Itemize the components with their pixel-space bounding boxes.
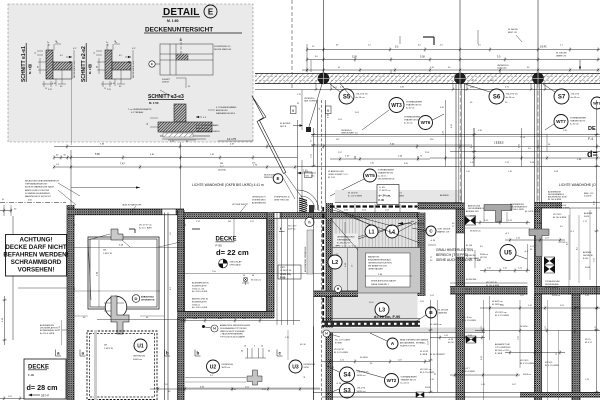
achtung warning box xyxy=(3,235,68,277)
svg-text:26: 26 xyxy=(114,41,116,43)
grid line through achtung box xyxy=(12,216,14,340)
svg-text:BL 4.17: BL 4.17 xyxy=(585,342,593,344)
svg-text:M. 15/2 W: M. 15/2 W xyxy=(348,193,358,195)
svg-text:b: b xyxy=(166,351,169,356)
svg-text:d= 24 cm,: d= 24 cm, xyxy=(379,194,392,198)
svg-text:DECKENGLEICH: DECKENGLEICH xyxy=(378,179,395,181)
lichte wandhoehe text left xyxy=(192,183,264,187)
t beam 2 right big xyxy=(529,229,549,257)
bowtie symbol 1 xyxy=(465,216,476,225)
svg-text:S7: S7 xyxy=(558,95,566,101)
svg-text:BL 4.5 & BWS: BL 4.5 & BWS xyxy=(462,371,475,373)
svg-text:30/20 cm: 30/20 cm xyxy=(523,374,532,376)
lower room dashed rectangle xyxy=(87,331,157,400)
d 20 label xyxy=(374,315,400,319)
label WT5 xyxy=(330,169,395,197)
label WT3 xyxy=(389,98,423,113)
svg-text:70/45 cm: 70/45 cm xyxy=(192,304,201,306)
lower room labels xyxy=(104,339,147,361)
label S5 xyxy=(330,84,368,104)
bottom dim row y389 xyxy=(150,387,320,392)
svg-text:40: 40 xyxy=(243,275,245,277)
svg-text:17b-17/2: 17b-17/2 xyxy=(357,388,366,390)
svg-text:DECKE 30: DECKE 30 xyxy=(583,255,594,257)
svg-text:4.17: 4.17 xyxy=(132,48,136,50)
leader line through panel xyxy=(71,70,73,145)
stair right wall band xyxy=(418,213,426,297)
svg-text:b= 24 cm: b= 24 cm xyxy=(378,176,387,178)
svg-text:UPRO-ALW: UPRO-ALW xyxy=(230,264,241,267)
svg-text:SIEHE PLAN-NR. J: SIEHE PLAN-NR. J xyxy=(371,283,389,286)
svg-text:BL 4.17 & BWS: BL 4.17 & BWS xyxy=(520,363,534,365)
svg-text:h: h xyxy=(308,220,310,224)
right wall band x460 xyxy=(456,84,465,400)
stair area extra marks xyxy=(336,204,485,340)
svg-text:VD 15/15 W: VD 15/15 W xyxy=(486,282,497,284)
hall vertical dim chain right xyxy=(471,128,521,167)
svg-text:M. 4/2 W: M. 4/2 W xyxy=(420,351,428,353)
svg-text:40. 30/20 cm: 40. 30/20 cm xyxy=(430,324,442,326)
stair gray strip top xyxy=(335,190,462,203)
svg-text:ANBAUTEILE: ANBAUTEILE xyxy=(141,296,155,299)
left stair band bottom continues xyxy=(313,327,315,400)
svg-text:M 30/2: M 30/2 xyxy=(470,216,477,218)
middle room bottom wall band xyxy=(178,312,275,319)
svg-text:1.05/1 W: 1.05/1 W xyxy=(104,348,114,350)
svg-text:30: 30 xyxy=(352,80,354,82)
extra scatter bottom mid 2 xyxy=(322,349,434,389)
svg-text:MIT ARBEITEN 10%: MIT ARBEITEN 10% xyxy=(368,265,387,268)
svg-text:b= 30 cm: b= 30 cm xyxy=(404,123,413,125)
svg-text:H: H xyxy=(268,350,270,353)
svg-text:BEREICH (TREPPE): BEREICH (TREPPE) xyxy=(436,253,468,257)
aussparung bodenplatte notes xyxy=(192,282,209,310)
bowtie symbol 3 xyxy=(466,336,476,343)
svg-text:B. 30FB: B. 30FB xyxy=(420,354,428,356)
unterfangung note xyxy=(334,234,358,246)
right wall band x538 xyxy=(535,84,542,400)
svg-text:B= 124 & UKFB: B= 124 & UKFB xyxy=(40,333,55,335)
left pier verticals xyxy=(298,100,330,400)
svg-text:LAIBUNG: LAIBUNG xyxy=(438,312,448,315)
svg-text:30/60 cm: 30/60 cm xyxy=(133,359,142,361)
svg-text:WT7: WT7 xyxy=(556,119,566,124)
det b note xyxy=(280,123,303,128)
svg-text:VD 4.1 ?: VD 4.1 ? xyxy=(462,368,471,370)
bowtie symbol 2 double xyxy=(544,257,555,273)
svg-text:F-4: F-4 xyxy=(588,137,593,141)
svg-text:M. 1:50: M. 1:50 xyxy=(149,101,159,105)
upper room leader lines xyxy=(88,234,180,247)
grid axis verticals xyxy=(292,0,538,90)
column S6 section xyxy=(454,73,465,84)
svg-text:WT2: WT2 xyxy=(387,378,397,383)
svg-text:BL 4.17 & BWS: BL 4.17 & BWS xyxy=(462,320,476,322)
svg-text:LICHTE WANDHÖHE (OKFB BIS: LICHTE WANDHÖHE (OKFB BIS UKRD) 4.41 m xyxy=(192,183,264,187)
svg-text:DET 4?: DET 4? xyxy=(41,395,50,398)
svg-text:SCHRAMMBORD: SCHRAMMBORD xyxy=(11,259,62,266)
svg-text:VD 15/15 cm: VD 15/15 cm xyxy=(495,312,507,314)
panel extra dim furniture xyxy=(35,41,237,115)
svg-text:19.43: 19.43 xyxy=(540,45,547,49)
svg-text:+ FACHUNTERNEHMEN: + FACHUNTERNEHMEN xyxy=(220,333,243,336)
svg-text:Bo. 224 U.GOFB: Bo. 224 U.GOFB xyxy=(192,291,208,293)
upper room inner rectangle xyxy=(88,237,159,309)
t beam mid bottom xyxy=(247,370,262,385)
svg-text:30/2 VQ: 30/2 VQ xyxy=(288,229,296,231)
svg-text:VD 15: VD 15 xyxy=(585,339,591,341)
circle C callout xyxy=(412,226,451,236)
svg-text:DECKE ÜBER UG: DECKE ÜBER UG xyxy=(214,48,232,51)
svg-text:AUSSPARUNG: AUSSPARUNG xyxy=(40,324,54,327)
dimension row 5.38 xyxy=(306,53,600,71)
svg-text:VD 15/15 cm: VD 15/15 cm xyxy=(420,369,432,371)
svg-text:VD 15/15: VD 15/15 xyxy=(553,214,562,216)
quadrant symbol xyxy=(219,259,243,268)
stl 17.30 box hall xyxy=(377,185,399,205)
svg-text:F-40: F-40 xyxy=(379,198,385,202)
svg-text:GRAU HINTERLEGTEN: GRAU HINTERLEGTEN xyxy=(436,248,473,252)
corner mark xyxy=(423,37,434,45)
detail panel background xyxy=(8,4,253,142)
svg-text:VD. 1.07 & BWS: VD. 1.07 & BWS xyxy=(335,340,350,342)
lichte wandhoehe text right xyxy=(559,183,596,187)
svg-text:40 OK: 40 OK xyxy=(448,342,454,344)
w decke ueber ug arrow xyxy=(398,222,425,225)
svg-text:70/45 cm, UK: 70/45 cm, UK xyxy=(192,288,205,290)
svg-text:+4.50: +4.50 xyxy=(336,383,342,385)
svg-text:2x: 2x xyxy=(47,42,49,44)
svg-text:VORHANDENER: VORHANDENER xyxy=(406,101,423,104)
svg-text:AUSSPARUNG: AUSSPARUNG xyxy=(252,202,266,205)
svg-text:UNTERZUG: UNTERZUG xyxy=(222,364,234,366)
svg-text:F-90: F-90 xyxy=(28,373,35,377)
svg-text:TIEFGARAGE: TIEFGARAGE xyxy=(337,239,351,242)
svg-text:17.30/17.30: 17.30/17.30 xyxy=(280,270,292,272)
svg-text:1 STL: 1 STL xyxy=(280,267,286,269)
outer wall top horizontal right part xyxy=(178,213,332,219)
svg-text:30: 30 xyxy=(472,80,474,82)
unterzug note above wall xyxy=(181,142,291,209)
stair labels L1 L4 L2 xyxy=(365,225,378,238)
svg-text:AUSSPARUNG TRENNFUGE: AUSSPARUNG TRENNFUGE xyxy=(304,246,307,272)
section markers a a b b c xyxy=(56,350,283,357)
hall horizontal lines xyxy=(297,135,600,167)
labels U2 U3 xyxy=(207,360,234,373)
svg-text:12.175: 12.175 xyxy=(227,137,237,141)
svg-text:B? BWt: B? BWt xyxy=(335,341,342,344)
label S7 xyxy=(543,84,580,104)
svg-text:17b-17/2 DC: 17b-17/2 DC xyxy=(506,94,519,96)
label WT7 xyxy=(545,115,587,131)
svg-text:E: E xyxy=(151,62,153,66)
svg-text:E: E xyxy=(208,8,214,17)
svg-text:BF 56/5 ux 5/17: BF 56/5 ux 5/17 xyxy=(495,350,510,352)
svg-text:BEFAHREN WERDEN!: BEFAHREN WERDEN! xyxy=(3,252,68,259)
aussparung note bottom left xyxy=(40,324,67,335)
svg-text:16: 16 xyxy=(244,346,246,348)
svg-text:GEH. SCHNITT: GEH. SCHNITT xyxy=(304,101,318,103)
svg-text:DECKENRAND B: DECKENRAND B xyxy=(468,207,485,210)
svg-text:M. 140: M. 140 xyxy=(466,245,473,247)
svg-text:M 15/15: M 15/15 xyxy=(545,362,553,364)
svg-text:+4.50: +4.50 xyxy=(448,339,454,341)
svg-text:ABSTELLUNG IN: ABSTELLUNG IN xyxy=(192,298,208,301)
svg-text:5.38: 5.38 xyxy=(352,56,357,59)
svg-text:DECKENUNTERSICHT: DECKENUNTERSICHT xyxy=(145,27,213,34)
svg-text:45: 45 xyxy=(188,86,190,88)
left dim row 2 xyxy=(53,163,297,172)
svg-text:TRÄGER IM OG: TRÄGER IM OG xyxy=(401,379,417,382)
deckenuntersicht mini plan xyxy=(149,44,232,75)
svg-text:VD 1.03?: VD 1.03? xyxy=(288,226,297,228)
svg-text:BL 4.17 & BWS: BL 4.17 & BWS xyxy=(420,372,434,374)
svg-text:VORHANDENER: VORHANDENER xyxy=(401,376,418,379)
svg-text:4.2 TIEFBAU: 4.2 TIEFBAU xyxy=(131,111,144,114)
svg-text:DECKENSPIEGEL: DECKENSPIEGEL xyxy=(74,60,76,78)
svg-text:DE: DE xyxy=(103,250,107,252)
label WT6 xyxy=(404,114,444,130)
svg-text:BL 4.17 & BWS: BL 4.17 & BWS xyxy=(545,365,559,367)
left dim row 1 xyxy=(53,153,297,160)
svg-text:ACHTUNG!: ACHTUNG! xyxy=(20,236,53,243)
upper room dims xyxy=(74,240,185,307)
svg-text:DE: DE xyxy=(588,126,596,132)
svg-text:5.86: 5.86 xyxy=(95,153,100,156)
svg-text:b: b xyxy=(197,351,200,356)
misc leader lines xyxy=(122,84,389,214)
svg-text:M. 1:60: M. 1:60 xyxy=(167,19,179,23)
circle H small xyxy=(323,330,350,344)
svg-text:U2: U2 xyxy=(210,364,217,370)
svg-text:ODER SCHNITT C-C,: ODER SCHNITT C-C, xyxy=(328,174,349,176)
boxed 9 markers xyxy=(291,106,332,114)
svg-text:TYP RL/30 RL/30 B LAMPE: TYP RL/30 RL/30 B LAMPE xyxy=(220,336,246,339)
svg-text:ÜBER SCHUTZ VORSEHE: ÜBER SCHUTZ VORSEHE xyxy=(220,330,245,333)
svg-text:7 cm VERBUNDSMATTE: 7 cm VERBUNDSMATTE xyxy=(128,108,152,111)
bottom left dims xyxy=(0,396,24,400)
outer wall top horizontal left part xyxy=(67,209,184,215)
svg-text:AUSSEN: AUSSEN xyxy=(583,251,592,254)
anchor bolt symbol xyxy=(242,275,261,285)
svg-text:WT5: WT5 xyxy=(365,173,375,178)
svg-text:BL 140 & BWS: BL 140 & BWS xyxy=(556,208,570,210)
middle room decke label xyxy=(216,237,249,258)
svg-text:VD + B cm: VD + B cm xyxy=(462,317,472,319)
svg-text:4.5: 4.5 xyxy=(577,247,579,250)
svg-text:M. 1:50: M. 1:50 xyxy=(28,64,32,74)
svg-text:URNE BAUZEIT: URNE BAUZEIT xyxy=(368,268,384,271)
svg-text:W 24/50: W 24/50 xyxy=(520,326,528,328)
svg-text:UK? DER SHUTZ?: UK? DER SHUTZ? xyxy=(232,204,248,206)
svg-text:VD 1/7.5? cm: VD 1/7.5? cm xyxy=(139,225,152,227)
svg-text:BL 1.07 & BWS: BL 1.07 & BWS xyxy=(334,352,348,354)
svg-text:40 30/20: 40 30/20 xyxy=(360,357,369,359)
right zone dims upper xyxy=(465,210,567,244)
schnitt e3-e3 detail xyxy=(128,94,220,143)
svg-text:40. 30: 40. 30 xyxy=(300,344,306,346)
svg-text:17.15: 17.15 xyxy=(494,141,501,145)
stair dims xyxy=(345,248,354,293)
svg-text:W. DECKE: W. DECKE xyxy=(438,310,449,312)
stair interior gray xyxy=(333,219,418,322)
svg-text:W. DECKE: W. DECKE xyxy=(556,53,567,55)
svg-text:10 ¹/₂: 10 ¹/₂ xyxy=(369,301,374,304)
svg-text:VORHANDENER: VORHANDENER xyxy=(378,169,395,172)
svg-text:SCHWERE FEUERWEHR-: SCHWERE FEUERWEHR- xyxy=(25,193,51,195)
svg-text:ELEKTROFAHRZEUGE NACH: ELEKTROFAHRZEUGE NACH xyxy=(25,186,54,189)
svg-text:BODENPLATTE: BODENPLATTE xyxy=(192,300,207,303)
hall dimension row xyxy=(330,141,600,166)
svg-text:4.5: 4.5 xyxy=(567,242,569,245)
outer wall left vertical xyxy=(67,205,74,400)
svg-text:b= 30 cm: b= 30 cm xyxy=(570,124,579,126)
svg-text:DURCH: DURCH xyxy=(162,82,169,84)
svg-text:B. 1.07 & BWS: B. 1.07 & BWS xyxy=(348,196,362,198)
svg-text:2x: 2x xyxy=(106,42,108,44)
left edge vertical dim xyxy=(2,296,7,345)
right zone vertical dim rotated texts xyxy=(481,100,599,393)
stair top heavy wall xyxy=(330,207,420,219)
svg-text:MARKE 1 W: MARKE 1 W xyxy=(438,231,450,234)
svg-text:LICHTE WANDHÖHE (O: LICHTE WANDHÖHE (O xyxy=(559,183,596,187)
left zone extra marks xyxy=(2,199,271,345)
svg-text:KEINE AUFZUGSCHACHT: KEINE AUFZUGSCHACHT xyxy=(371,280,397,283)
svg-text:4.17: 4.17 xyxy=(73,48,77,50)
svg-text:BL 141 & BWS: BL 141 & BWS xyxy=(545,287,559,289)
svg-text:VOR. DECKE: VOR. DECKE xyxy=(438,229,451,231)
svg-text:M. 140 E. BWS: M. 140 E. BWS xyxy=(510,209,524,211)
svg-text:1.9x: 1.9x xyxy=(212,271,216,273)
upper room notch block xyxy=(111,229,123,240)
label L3 xyxy=(369,301,389,317)
svg-text:DECKENSPIEGEL: DECKENSPIEGEL xyxy=(133,60,135,78)
svg-text:d= 28 cm: d= 28 cm xyxy=(27,383,58,392)
panel bottom dimension 12.175 xyxy=(218,137,253,141)
svg-text:15: 15 xyxy=(35,52,37,54)
svg-text:OBEN SOWEIT 0-C: OBEN SOWEIT 0-C xyxy=(341,133,359,135)
small dim detail mid bottom xyxy=(241,346,270,359)
svg-text:B 140: B 140 xyxy=(583,258,589,260)
svg-text:VORHANDENER: VORHANDENER xyxy=(570,117,587,120)
svg-text:BL 30/20 cm: BL 30/20 cm xyxy=(492,304,503,306)
svg-text:d=: d= xyxy=(587,149,598,159)
svg-text:vorhanden: vorhanden xyxy=(497,67,508,70)
svg-text:TRÄGER IM OG: TRÄGER IM OG xyxy=(570,120,586,123)
detail panel title DETAIL E xyxy=(144,5,242,34)
svg-text:AUSSPARUNG IN: AUSSPARUNG IN xyxy=(192,282,209,285)
svg-text:BODENPLATTE: BODENPLATTE xyxy=(192,284,207,287)
h circle marker xyxy=(305,217,314,226)
svg-text:15: 15 xyxy=(104,88,106,90)
svg-text:5.38: 5.38 xyxy=(420,56,425,59)
svg-text:2.004 W: 2.004 W xyxy=(584,196,592,198)
svg-text:L2: L2 xyxy=(332,260,338,266)
svg-text:d= 45 cm: d= 45 cm xyxy=(571,97,580,99)
line below beam xyxy=(255,84,600,91)
svg-text:AUSSPARUNG: AUSSPARUNG xyxy=(510,203,524,206)
svg-text:LAGE 30? BAUSTOFF: LAGE 30? BAUSTOFF xyxy=(122,204,142,207)
svg-text:BEIM GIESSEN DER WÄNDE: BEIM GIESSEN DER WÄNDE xyxy=(400,339,429,342)
svg-text:D: D xyxy=(135,296,138,301)
decke label right edge xyxy=(587,126,598,159)
dim 1.61 with arrow xyxy=(297,170,316,178)
stair zone diagonal leaders xyxy=(330,207,420,250)
svg-text:VORHANDENER: VORHANDENER xyxy=(404,116,421,119)
svg-text:M. 1:50: M. 1:50 xyxy=(328,177,336,179)
svg-text:30/20 cm: 30/20 cm xyxy=(552,295,561,297)
inner wall band x178 xyxy=(178,210,185,400)
svg-text:d= 45 cm: d= 45 cm xyxy=(356,97,365,99)
door swing arcs xyxy=(298,190,319,211)
svg-text:FAHRZEUGE (F 30) NICHT: FAHRZEUGE (F 30) NICHT xyxy=(25,195,51,198)
inner wall between rooms vertical lines xyxy=(165,213,169,400)
svg-text:E: E xyxy=(277,176,280,181)
hall vertical dim chain left xyxy=(311,128,316,167)
svg-text:ABSTELLUNG VON PKW: ABSTELLUNG VON PKW xyxy=(25,189,49,192)
dimension row 19.43 xyxy=(306,45,600,52)
svg-text:WANDKOPFFLÄCHEN E: WANDKOPFFLÄCHEN E xyxy=(196,130,220,133)
svg-text:b= 30 cm: b= 30 cm xyxy=(406,108,415,110)
svg-text:L4: L4 xyxy=(389,229,395,235)
bottom mid vertical chains xyxy=(428,300,438,393)
svg-text:TRÄGER IM OG: TRÄGER IM OG xyxy=(404,119,420,122)
svg-text:OBKO-KLAP: OBKO-KLAP xyxy=(230,261,243,264)
extra scatter right zone 2 xyxy=(452,203,593,309)
svg-text:DESE THUS DB: DESE THUS DB xyxy=(274,200,289,202)
left small dims xyxy=(0,150,140,216)
svg-text:B. 30FB: B. 30FB xyxy=(495,353,503,355)
svg-text:30/20: 30/20 xyxy=(425,387,431,389)
svg-text:16: 16 xyxy=(261,346,263,348)
svg-text:W. ANSCHLUSS: W. ANSCHLUSS xyxy=(328,170,344,173)
stl box xyxy=(278,265,301,279)
label WT2 bottom xyxy=(356,370,417,388)
svg-text:W 20/30 cm: W 20/30 cm xyxy=(470,231,481,233)
svg-text:d= 20 cm, F-90: d= 20 cm, F-90 xyxy=(374,315,400,319)
extra scatter top beam area xyxy=(297,70,510,130)
svg-text:BL 140 & BWS: BL 140 & BWS xyxy=(486,285,500,287)
svg-text:30/20: 30/20 xyxy=(584,216,590,218)
stair treads xyxy=(333,219,418,248)
svg-text:M. BODEN: M. BODEN xyxy=(280,123,291,125)
svg-text:U5: U5 xyxy=(504,251,512,257)
svg-text:ANSCHLUSS: ANSCHLUSS xyxy=(196,127,209,130)
svg-text:U1: U1 xyxy=(137,343,144,349)
svg-text:E. 4/8a 6/U 5?: E. 4/8a 6/U 5? xyxy=(337,243,351,245)
svg-text:F-90: F-90 xyxy=(216,244,223,248)
svg-text:S6: S6 xyxy=(493,95,501,101)
svg-text:L3: L3 xyxy=(379,307,385,313)
svg-text:b= 24 cm: b= 24 cm xyxy=(401,383,410,385)
svg-text:15: 15 xyxy=(45,88,47,90)
svg-text:WT6: WT6 xyxy=(421,120,431,125)
svg-text:B- 3.0 t. BWS: B- 3.0 t. BWS xyxy=(139,227,152,230)
t beam 1 right xyxy=(484,205,512,223)
svg-text:A: A xyxy=(391,341,395,347)
svg-text:VORSPRUNG 15: VORSPRUNG 15 xyxy=(274,197,291,199)
svg-text:AUSSEN 30/2: AUSSEN 30/2 xyxy=(466,210,480,213)
svg-text:AUSSEN: AUSSEN xyxy=(584,212,593,215)
svg-text:S3: S3 xyxy=(343,389,351,395)
svg-text:W. DECKE: W. DECKE xyxy=(508,29,518,31)
svg-text:26: 26 xyxy=(55,41,57,43)
svg-text:BL 30-7/8 BWS?: BL 30-7/8 BWS? xyxy=(430,354,446,356)
grau hinterlegten note xyxy=(436,248,481,262)
svg-text:GIPSKARTON: GIPSKARTON xyxy=(141,298,155,301)
svg-text:WT3: WT3 xyxy=(391,103,402,109)
svg-text:B. 140 & BWS: B. 140 & BWS xyxy=(466,258,479,260)
